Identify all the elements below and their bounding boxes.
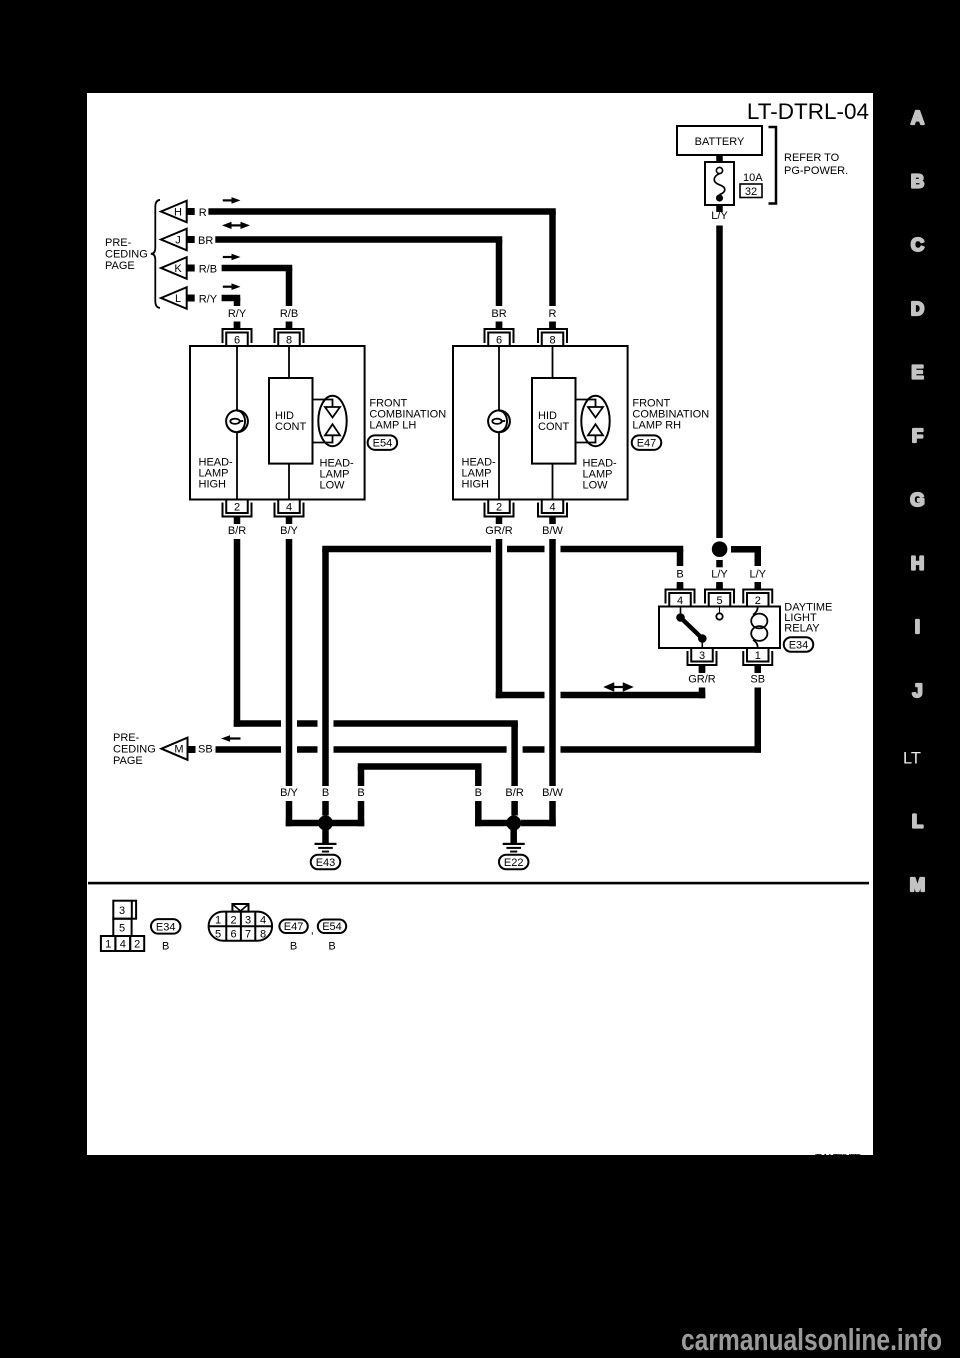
wire L/Y vertical to relay pin 2	[755, 549, 762, 566]
svg-text:4: 4	[549, 502, 555, 514]
relay coil	[751, 607, 767, 649]
bulb headlamp high RH	[488, 410, 510, 432]
svg-text:B/W: B/W	[542, 525, 563, 537]
wire B/R vertical LH pin2	[234, 539, 241, 727]
wire R stub	[549, 322, 556, 329]
svg-text:GR/R: GR/R	[688, 674, 716, 686]
svg-text:32: 32	[745, 186, 757, 198]
svg-text:6: 6	[496, 334, 502, 346]
wire GR/R stub relay pin3	[699, 667, 706, 674]
wire B stub relay pin4	[677, 584, 684, 590]
svg-text:L/Y: L/Y	[711, 569, 728, 581]
sidebar index letters	[910, 107, 925, 895]
wire B bridge horizontal	[358, 763, 482, 770]
svg-text:PRE-: PRE-	[113, 732, 140, 744]
svg-text:M: M	[174, 744, 183, 756]
wire fuse stub	[716, 205, 723, 212]
svg-text:LOW: LOW	[320, 480, 346, 492]
wire internal HID RH	[552, 346, 554, 500]
svg-text:2: 2	[134, 939, 140, 951]
wire B/R vertical to E22	[511, 724, 517, 816]
battery B1	[677, 126, 762, 155]
connector pin 3 relay	[688, 648, 717, 673]
wire L/Y stub pin5	[716, 584, 723, 590]
svg-text:E47: E47	[637, 438, 657, 450]
wire L/Y main vertical	[716, 226, 723, 539]
wire B vertical long to E43	[322, 549, 329, 816]
junction node L/Y	[712, 541, 728, 557]
svg-text:B: B	[357, 787, 364, 799]
connector id E54	[368, 435, 398, 450]
svg-text:B/Y: B/Y	[280, 787, 298, 799]
svg-text:PAGE: PAGE	[113, 755, 143, 767]
wire R/Y stub	[234, 322, 241, 329]
svg-text:HIGH: HIGH	[199, 479, 227, 491]
white scanned page	[87, 93, 873, 1155]
svg-text:B/R: B/R	[505, 787, 523, 799]
wire BR stub	[496, 322, 503, 329]
svg-text:1: 1	[755, 650, 761, 662]
wire ground rail E22 right	[521, 820, 556, 827]
svg-text:8: 8	[260, 929, 266, 941]
svg-text:B: B	[328, 941, 335, 953]
brace preceding page top	[151, 200, 160, 308]
flow arrow GR/R flow	[603, 682, 634, 692]
svg-text:PG-POWER.: PG-POWER.	[784, 165, 848, 177]
svg-text:B: B	[911, 171, 924, 192]
svg-text:E54: E54	[322, 921, 342, 933]
svg-text:,: ,	[311, 925, 314, 937]
flow arrow row K	[223, 254, 241, 261]
svg-text:J: J	[175, 235, 181, 247]
svg-text:LT-DTRL-04: LT-DTRL-04	[747, 99, 869, 124]
wire B/W vertical RH pin4	[549, 539, 556, 826]
svg-text:10A: 10A	[743, 172, 763, 184]
svg-text:E43: E43	[316, 857, 336, 869]
svg-text:2: 2	[496, 502, 502, 514]
svg-text:B/W: B/W	[542, 787, 563, 799]
svg-text:BR: BR	[491, 308, 506, 320]
svg-text:LAMP LH: LAMP LH	[369, 420, 416, 432]
fuse F 10A 32	[705, 162, 734, 205]
svg-text:2: 2	[231, 915, 237, 927]
svg-text:REFER TO: REFER TO	[784, 152, 840, 164]
svg-text:E: E	[911, 362, 923, 383]
svg-text:2: 2	[234, 502, 240, 514]
wire GR/R vertical relay pin3	[699, 688, 706, 699]
connector id E34 detail	[151, 919, 181, 934]
connector pin 2 lamp RH	[485, 500, 514, 525]
svg-text:8: 8	[549, 334, 555, 346]
svg-text:G: G	[910, 489, 924, 510]
connector pin 4 lamp RH	[538, 500, 567, 525]
flow arrow row J	[222, 222, 250, 229]
wire SB vertical relay pin1	[755, 688, 762, 753]
wire GR/R vertical RH pin2	[496, 539, 503, 698]
svg-text:SB: SB	[198, 744, 213, 756]
wire battery to fuse	[716, 155, 723, 162]
svg-text:L/Y: L/Y	[749, 569, 766, 581]
svg-text:PAGE: PAGE	[105, 260, 135, 272]
wire R/B horizontal row K	[222, 265, 293, 272]
svg-text:B: B	[322, 787, 329, 799]
wire B bridge right vertical	[475, 767, 482, 827]
svg-text:M: M	[910, 874, 925, 895]
front combination lamp LH box	[190, 346, 365, 500]
connector pin 6 lamp LH	[223, 322, 252, 347]
svg-text:B: B	[290, 941, 297, 953]
svg-text:5: 5	[716, 595, 722, 607]
wire internal HID LH	[288, 346, 290, 500]
svg-text:8: 8	[286, 334, 292, 346]
relay switch contact	[676, 607, 706, 649]
wire B/Y vertical LH pin4	[286, 539, 293, 826]
front combination lamp RH box	[453, 346, 628, 500]
connector pin 5 relay	[705, 582, 734, 607]
wire L/Y stub below dot	[716, 560, 723, 567]
relay pin5 contact point	[716, 607, 722, 620]
svg-text:3: 3	[245, 915, 251, 927]
wire GR/R horizontal	[496, 692, 706, 699]
flow arrow SB flow	[221, 735, 241, 742]
connector id E47 detail	[279, 920, 307, 934]
svg-text:CONT: CONT	[538, 421, 569, 433]
wire B bridge left vertical	[358, 767, 365, 827]
svg-text:R/B: R/B	[280, 308, 298, 320]
svg-text:6: 6	[234, 334, 240, 346]
wire BR horizontal row J	[215, 236, 502, 243]
connector detail E34 relay face	[101, 901, 144, 951]
svg-text:E34: E34	[789, 639, 809, 651]
svg-text:E34: E34	[156, 921, 176, 933]
svg-text:4: 4	[260, 915, 266, 927]
svg-text:HIGH: HIGH	[462, 479, 490, 491]
wire internal headlamp high LH	[236, 346, 238, 500]
svg-text:J: J	[912, 680, 922, 701]
svg-text:R/Y: R/Y	[199, 294, 218, 306]
svg-text:C: C	[911, 234, 924, 255]
svg-text:SB: SB	[750, 674, 765, 686]
HID controller box LH	[269, 378, 313, 464]
daytime light relay box E34	[659, 607, 780, 649]
svg-text:H: H	[174, 207, 182, 219]
wire ground rail E43 left	[286, 820, 319, 827]
svg-text:PRE-: PRE-	[105, 237, 132, 249]
svg-text:CEDING: CEDING	[105, 249, 148, 261]
svg-text:LT: LT	[903, 750, 921, 768]
svg-text:B/Y: B/Y	[280, 525, 298, 537]
svg-text:D: D	[911, 298, 924, 319]
svg-text:BATTERY: BATTERY	[695, 136, 745, 148]
svg-text:K: K	[174, 263, 182, 275]
svg-text:L: L	[175, 293, 181, 305]
connector detail E47/E54 lamp face	[209, 904, 273, 941]
connector id E54 detail	[318, 920, 346, 934]
svg-text:4: 4	[677, 595, 683, 607]
connector pin 1 relay	[743, 648, 772, 673]
svg-text:3: 3	[699, 650, 705, 662]
flow arrow row H	[223, 197, 241, 204]
svg-text:4: 4	[120, 939, 126, 951]
svg-text:CONT: CONT	[275, 421, 306, 433]
wire BR vertical to RH pin 6	[496, 240, 503, 307]
svg-text:BR: BR	[198, 235, 213, 247]
svg-text:R/Y: R/Y	[228, 308, 247, 320]
svg-text:1: 1	[105, 939, 111, 951]
wire SB stub relay pin1	[755, 667, 762, 674]
wire L/Y stub pin2	[755, 584, 762, 590]
svg-text:RELAY: RELAY	[784, 622, 820, 634]
wire R/Y vertical to LH pin 6	[234, 298, 241, 306]
connector id E47	[632, 435, 662, 450]
wire R/Y horizontal row L	[222, 295, 241, 302]
svg-text:E54: E54	[373, 438, 393, 450]
connector pin 4 relay	[666, 582, 695, 607]
svg-text:2: 2	[755, 595, 761, 607]
connector id E43	[311, 855, 341, 870]
svg-text:1: 1	[215, 915, 221, 927]
svg-text:B: B	[162, 941, 169, 953]
wire R horizontal row H	[208, 208, 555, 215]
svg-text:A: A	[911, 107, 924, 128]
svg-text:R/B: R/B	[199, 264, 217, 276]
connector pin 8 lamp LH	[275, 322, 304, 347]
svg-text:7: 7	[245, 929, 251, 941]
svg-text:B/R: B/R	[228, 525, 246, 537]
wire ground rail E22 left	[475, 820, 507, 827]
wire R vertical to RH pin 8	[549, 212, 556, 307]
connector pin 8 lamp RH	[538, 322, 567, 347]
xenon bulb headlamp low RH	[576, 396, 610, 446]
connector pin 4 lamp LH	[275, 500, 304, 525]
svg-text:I: I	[915, 616, 920, 637]
svg-text:LAMP RH: LAMP RH	[632, 420, 681, 432]
ground E43	[315, 816, 337, 853]
svg-text:B: B	[676, 569, 683, 581]
wire B horizontal to relay pin 4	[322, 546, 683, 553]
svg-text:5: 5	[215, 929, 221, 941]
xenon bulb headlamp low LH	[313, 396, 347, 446]
svg-text:3: 3	[119, 905, 125, 917]
svg-text:F: F	[912, 425, 923, 446]
wire SB horizontal	[216, 746, 762, 753]
wire L/Y horizontal to relay pin 2	[731, 546, 761, 553]
svg-text:E47: E47	[284, 921, 304, 933]
wire R/B vertical to LH pin 8	[286, 268, 293, 306]
svg-text:CEDING: CEDING	[113, 744, 156, 756]
wire B/R horizontal	[234, 720, 518, 727]
wire R/B stub	[286, 322, 293, 329]
preceding-page arrow M	[162, 738, 196, 760]
svg-text:H: H	[911, 553, 924, 574]
svg-text:R: R	[199, 207, 207, 219]
fuse number 32 box	[740, 184, 762, 198]
wire internal headlamp high RH	[498, 346, 500, 500]
svg-text:E22: E22	[504, 857, 524, 869]
preceding-page arrow J J	[161, 229, 195, 251]
preceding-page arrow K K	[161, 257, 195, 279]
connector id E22	[499, 855, 529, 870]
svg-text:GR/R: GR/R	[485, 525, 513, 537]
svg-text:L/Y: L/Y	[711, 210, 728, 222]
wire ground rail E43 right	[333, 820, 365, 827]
svg-text:B: B	[475, 787, 482, 799]
bracket refer-to	[769, 127, 777, 204]
svg-text:L: L	[912, 811, 923, 832]
preceding-page arrow L L	[161, 287, 195, 309]
connector pin 2 lamp LH	[223, 500, 252, 525]
svg-text:LOW: LOW	[583, 480, 609, 492]
flow arrow row L	[223, 283, 241, 290]
preceding-page arrow H H	[161, 201, 195, 223]
svg-text:R: R	[549, 308, 557, 320]
connector pin 6 lamp RH	[485, 322, 514, 347]
svg-text:6: 6	[231, 929, 237, 941]
connector id E34	[784, 637, 814, 652]
HID controller box RH	[532, 378, 576, 464]
black bottom band	[0, 1155, 960, 1358]
svg-text:carmanualsonline.info: carmanualsonline.info	[681, 1322, 942, 1357]
divider rule	[88, 882, 869, 885]
wire B branch to relay pin 4	[677, 549, 684, 566]
svg-text:5: 5	[119, 923, 125, 935]
svg-text:4: 4	[286, 502, 292, 514]
ground E22	[503, 816, 525, 853]
connector pin 2 relay	[743, 582, 772, 607]
bulb headlamp high LH	[226, 410, 248, 432]
